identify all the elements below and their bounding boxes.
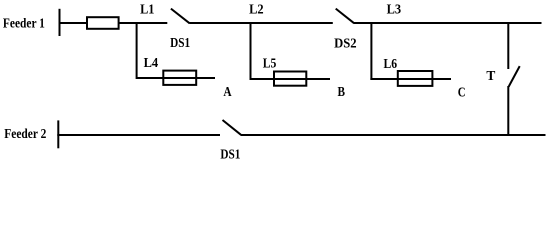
feeder 2 bus terminal bar	[57, 120, 59, 148]
svg-text:B: B	[338, 84, 346, 99]
feeder 1 bus terminal bar	[59, 9, 61, 36]
svg-text:L4: L4	[144, 55, 159, 70]
svg-text:Feeder 1: Feeder 1	[3, 16, 45, 31]
wire L2 branch vertical	[250, 22, 252, 80]
svg-text:C: C	[458, 84, 466, 99]
wire tie vertical lower	[507, 86, 509, 136]
wire L5 branch to fuse	[250, 78, 331, 80]
svg-text:Feeder 2: Feeder 2	[4, 126, 46, 141]
svg-text:DS2: DS2	[334, 35, 357, 50]
switch DS1 blade	[171, 9, 190, 24]
wire DS1 to DS2	[189, 22, 332, 24]
switch T blade	[509, 66, 520, 87]
wire DS1 to right end feeder2	[241, 134, 546, 136]
wire L6 branch to fuse	[370, 78, 451, 80]
wire feeder1 to resistor	[59, 22, 88, 24]
fuse L5	[274, 72, 306, 86]
svg-text:DS1: DS1	[220, 146, 240, 161]
wire tie vertical upper	[507, 22, 509, 69]
svg-text:L3: L3	[387, 2, 402, 17]
wire L4 branch to fuse	[136, 77, 215, 79]
svg-text:A: A	[223, 84, 231, 99]
svg-text:L5: L5	[263, 55, 277, 70]
svg-text:L6: L6	[384, 56, 398, 71]
svg-text:DS1: DS1	[170, 35, 190, 50]
fuse L6	[398, 71, 433, 86]
switch DS1 feeder2 blade	[223, 120, 241, 135]
wire resistor to DS1	[119, 22, 168, 24]
resistor on feeder 1 line	[87, 17, 119, 29]
svg-text:T: T	[486, 68, 495, 83]
svg-text:L1: L1	[140, 2, 154, 17]
wire L1 branch vertical	[136, 22, 138, 79]
wire L6 branch vertical	[370, 22, 372, 80]
wire DS2 to right end	[354, 22, 542, 24]
fuse L4	[163, 71, 196, 85]
switch DS2 blade	[336, 9, 355, 24]
wire feeder2 to DS1	[57, 134, 220, 136]
svg-text:L2: L2	[249, 2, 264, 17]
